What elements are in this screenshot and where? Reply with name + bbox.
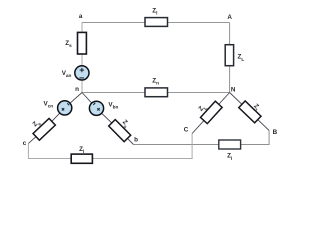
resistor Zs phase c (rotated) — [33, 118, 55, 140]
wire N to B diagonal — [230, 93, 270, 131]
wire N to C diagonal — [192, 93, 230, 134]
resistor Zl bottom-left (line c) — [71, 154, 92, 163]
resistor Zl top (line a-A) — [145, 18, 168, 27]
wire ZL column to N — [229, 66, 231, 92]
source Van — [75, 66, 89, 80]
svg-text:Zn: Zn — [152, 77, 159, 85]
resistor Zs phase b (rotated) — [109, 120, 131, 142]
wire c riser and bottom rail to C riser — [28, 134, 192, 159]
wire Zs to Van — [81, 55, 83, 67]
svg-text:Zl: Zl — [152, 8, 157, 16]
resistor Zs phase a (vertical) — [78, 32, 87, 54]
wire a stub vertical — [81, 23, 83, 32]
label Zs rotated (phase b source impedance) — [120, 119, 131, 130]
label Zs rotated (phase c source impedance) — [32, 119, 43, 130]
svg-text:a: a — [79, 13, 83, 20]
svg-text:Van: Van — [62, 70, 72, 78]
svg-text:n: n — [75, 86, 79, 93]
svg-text:N: N — [231, 86, 236, 93]
wire A column upper — [229, 23, 231, 45]
resistor ZL load N-B (rotated) — [239, 101, 261, 123]
svg-text:Vcn: Vcn — [44, 100, 54, 108]
resistor Zn (neutral) — [145, 88, 168, 97]
resistor Zl bottom-right (line b) — [219, 140, 241, 149]
resistor ZL phase A (vertical) — [225, 45, 233, 66]
wire neutral rail n to N — [82, 92, 230, 94]
svg-text:ZL: ZL — [238, 54, 245, 62]
resistor ZL load N-C (rotated) — [200, 101, 222, 123]
svg-text:c: c — [23, 140, 27, 147]
svg-text:C: C — [184, 127, 189, 134]
label ZL rotated (load N-C) — [198, 103, 209, 114]
label ZL rotated (load N-B) — [251, 103, 262, 114]
wire top rail a to A — [82, 22, 230, 24]
source Vbn — [89, 101, 103, 115]
svg-text:Zl: Zl — [227, 153, 232, 161]
source Vcn — [58, 101, 72, 115]
svg-text:Zs: Zs — [65, 40, 72, 48]
svg-text:Zl: Zl — [79, 146, 84, 154]
svg-text:B: B — [273, 129, 278, 136]
wire Van to node n — [81, 80, 83, 92]
svg-text:Vbn: Vbn — [108, 102, 118, 110]
svg-text:b: b — [134, 136, 138, 143]
wire n to b diagonal chain — [82, 93, 134, 145]
svg-text:A: A — [227, 14, 232, 21]
wire b rail to B riser — [134, 131, 270, 145]
wire n to c diagonal chain — [28, 93, 82, 144]
